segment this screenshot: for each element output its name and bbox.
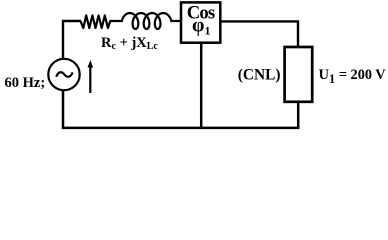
svg-text:Rc + jXLc: Rc + jXLc: [101, 35, 158, 52]
svg-text:60 Hz;: 60 Hz;: [5, 75, 46, 91]
svg-text:(CNL): (CNL): [238, 67, 281, 84]
svg-text:U1 = 200 V: U1 = 200 V: [319, 67, 387, 86]
